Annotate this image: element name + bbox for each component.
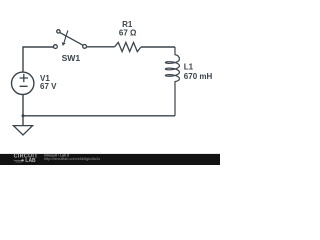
svg-text:http://circuitlab.com/c6b0gkv5: http://circuitlab.com/c6b0gkv5u2s bbox=[44, 157, 100, 161]
svg-text:670 mH: 670 mH bbox=[184, 72, 213, 81]
svg-text:67 Ω: 67 Ω bbox=[119, 29, 137, 38]
svg-text:SW1: SW1 bbox=[62, 53, 81, 63]
svg-text:67 V: 67 V bbox=[40, 82, 57, 91]
svg-text:LAB: LAB bbox=[25, 158, 36, 164]
svg-text:L1: L1 bbox=[184, 63, 194, 72]
